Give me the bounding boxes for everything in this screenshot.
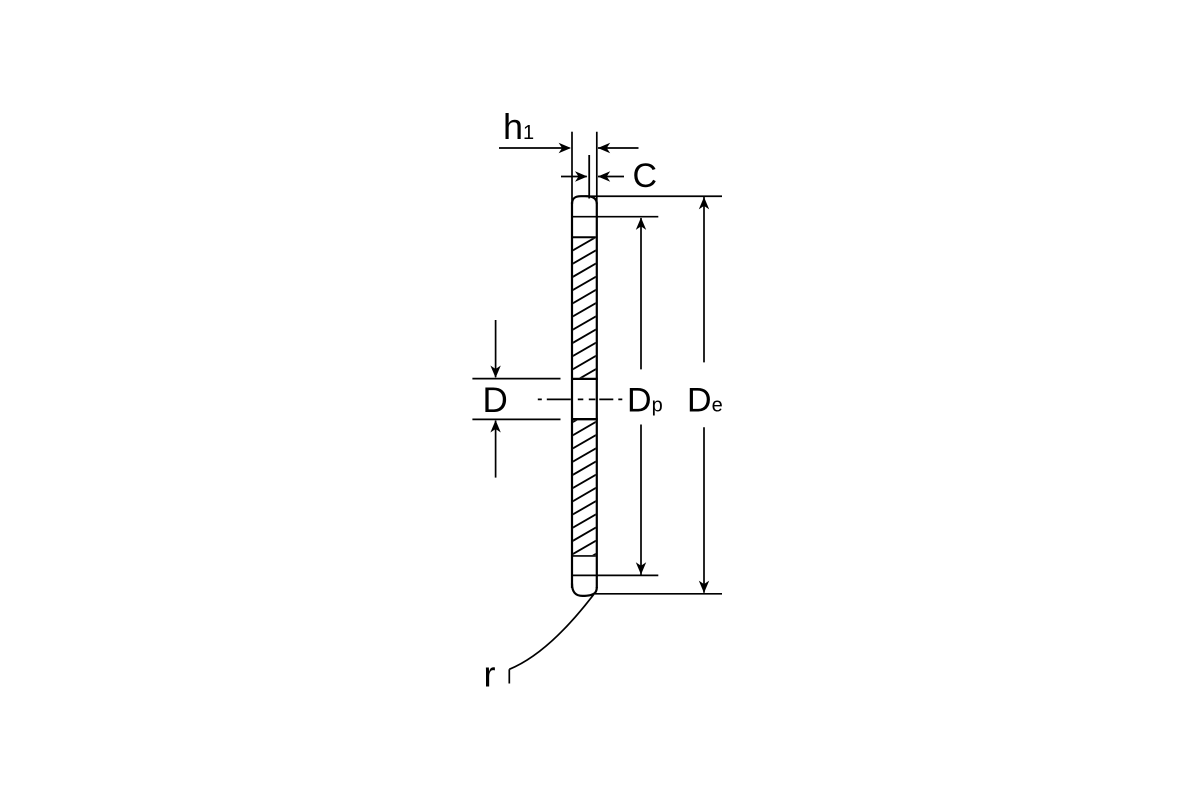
dimension h1 line left part <box>499 147 570 149</box>
dimension h1 line right part <box>598 147 639 149</box>
extension line Dp bottom <box>572 574 658 576</box>
D arrow stem lower <box>495 421 497 478</box>
centre line (dash-dot) <box>538 398 623 400</box>
extension line Dp top <box>572 216 658 218</box>
radius r leader tick <box>508 669 510 683</box>
extension line: part left edge (h1) <box>571 132 573 203</box>
extension line De bottom <box>595 593 722 595</box>
dimension Dp vertical line lower <box>640 425 642 575</box>
tooth root line bottom (hatch boundary) <box>573 555 596 557</box>
tooth root line top (hatch boundary) <box>573 236 596 238</box>
bore top edge <box>571 378 598 380</box>
dimension D bottom line <box>472 418 560 420</box>
dimension C line left part <box>561 176 587 178</box>
svg-text:C: C <box>633 157 658 195</box>
sprocket body right edge <box>596 204 598 589</box>
bore bottom edge <box>571 418 598 420</box>
sprocket body left edge <box>571 202 573 588</box>
svg-text:r: r <box>484 654 496 695</box>
extension line De top <box>586 195 723 197</box>
dimension C line right part <box>598 176 624 178</box>
dimension Dp vertical line upper <box>640 218 642 369</box>
svg-text:D: D <box>483 381 508 420</box>
extension line: part right edge (h1 / C) <box>596 132 598 204</box>
tooth tip top cap <box>572 196 597 204</box>
radius r leader curve <box>509 594 594 670</box>
dimension De vertical line upper <box>703 197 705 362</box>
dimension D top line <box>472 378 560 380</box>
dimension De vertical line lower <box>703 427 705 593</box>
hatching (section lines) of sprocket web <box>566 207 602 637</box>
D arrow stem upper <box>495 320 497 377</box>
tooth tip bottom cap <box>572 584 597 596</box>
extension line: chamfer edge (C) <box>588 155 590 199</box>
